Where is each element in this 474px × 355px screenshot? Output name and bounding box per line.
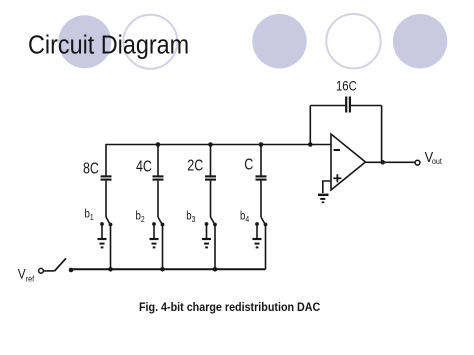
- svg-text:4C: 4C: [136, 158, 152, 176]
- svg-text:2C: 2C: [187, 157, 203, 175]
- svg-text:b1: b1: [85, 208, 94, 223]
- wire branch4 upper: [260, 145, 262, 176]
- svg-text:b3: b3: [186, 210, 195, 225]
- wire branch2 upper: [157, 145, 159, 176]
- svg-text:Vout: Vout: [425, 148, 443, 166]
- svg-text:Fig. 4-bit charge redistributi: Fig. 4-bit charge redistribution DAC: [139, 301, 320, 314]
- wire branch3 upper: [210, 145, 212, 176]
- switch b2: [152, 217, 164, 226]
- wire feedback top left: [310, 105, 345, 107]
- wire plus input: [323, 181, 331, 193]
- svg-text:Vref: Vref: [18, 266, 35, 284]
- terminal Vout: [415, 160, 420, 165]
- wire feedback top right: [351, 105, 382, 107]
- wire branch4 lower: [265, 225, 267, 269]
- wire branch3 lower: [214, 225, 216, 269]
- junction bottom bus b1: [108, 267, 113, 272]
- wire Vref stub: [44, 270, 55, 272]
- svg-text:C: C: [244, 156, 253, 174]
- wire branch1 mid: [105, 181, 107, 217]
- junction top bus b2: [156, 142, 161, 147]
- switch b3: [205, 217, 217, 226]
- switch S0 Vref: [55, 258, 67, 271]
- svg-text:16C: 16C: [336, 79, 357, 94]
- wire branch2 mid: [157, 181, 159, 217]
- svg-text:8C: 8C: [83, 160, 99, 178]
- wire bottom bus: [71, 268, 266, 270]
- terminal Vref: [39, 268, 44, 273]
- junction bottom bus Vref: [69, 268, 74, 273]
- op-amp U1: [331, 134, 366, 190]
- capacitor C3 2C: [205, 176, 216, 179]
- svg-text:Circuit Diagram: Circuit Diagram: [28, 31, 189, 59]
- junction top bus b4: [259, 142, 264, 147]
- junction output: [380, 160, 385, 165]
- wire feedback left: [309, 106, 311, 145]
- ground branch4: [253, 226, 262, 248]
- ground branch2: [150, 226, 159, 248]
- junction bottom bus b2: [160, 267, 165, 272]
- capacitor C4 C: [256, 176, 267, 179]
- svg-text:b2: b2: [136, 210, 145, 225]
- junction top bus feedback: [308, 142, 313, 147]
- wire feedback right: [381, 106, 383, 163]
- switch b4: [255, 217, 267, 226]
- wire branch3 mid: [210, 181, 212, 217]
- svg-text:b4: b4: [240, 210, 250, 225]
- capacitor C5 16C: [346, 97, 350, 113]
- ground branch3: [202, 226, 211, 248]
- junction bottom bus b3: [213, 267, 218, 272]
- junction top bus b3: [208, 142, 213, 147]
- wire top bus: [106, 145, 331, 176]
- ground op-amp: [318, 195, 329, 203]
- wire output: [366, 161, 416, 163]
- capacitor C1 8C: [101, 176, 112, 179]
- wire branch1 lower: [110, 225, 112, 269]
- wire branch2 lower: [162, 225, 164, 269]
- switch b1: [100, 217, 112, 226]
- wire branch4 mid: [260, 181, 262, 217]
- ground branch1: [98, 226, 107, 248]
- capacitor C2 4C: [153, 176, 164, 179]
